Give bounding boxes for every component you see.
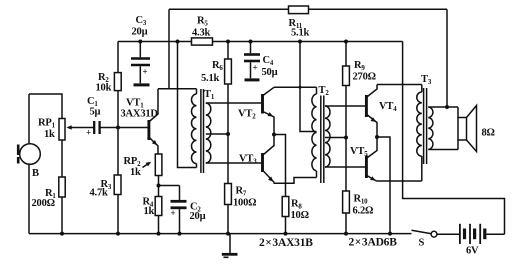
svg-text:VT2: VT2 xyxy=(238,109,256,121)
label R9 value xyxy=(353,72,376,83)
label R5 value xyxy=(192,28,211,39)
label R4 value xyxy=(144,206,155,217)
wiper arrow RP2 xyxy=(143,162,152,168)
label VT5 xyxy=(350,146,368,158)
junction VT2 VT3 emitters xyxy=(272,133,276,137)
wire base node to R3 xyxy=(117,128,119,176)
junction emitter ground xyxy=(388,232,392,236)
transformer T2 primary xyxy=(312,87,317,177)
svg-text:8Ω: 8Ω xyxy=(482,128,495,139)
svg-text:T1: T1 xyxy=(204,89,215,101)
junction R4 ground xyxy=(157,232,161,236)
label R2 xyxy=(98,72,109,84)
wire battery to feed xyxy=(486,233,504,235)
label output pair type xyxy=(259,237,313,249)
label R9 xyxy=(354,60,365,72)
wire ct to R7 xyxy=(227,134,229,184)
svg-text:R7: R7 xyxy=(236,186,247,198)
svg-text:6V: 6V xyxy=(466,246,479,257)
capacitor C4 xyxy=(244,42,260,80)
label R6 value xyxy=(201,73,220,84)
label R4 xyxy=(143,197,154,209)
junction R9 rail xyxy=(344,40,348,44)
wire VT4 collector xyxy=(377,84,422,86)
svg-text:5.1k: 5.1k xyxy=(291,28,310,39)
label B xyxy=(32,168,39,179)
label C3 value xyxy=(132,27,148,38)
junction T1 feed xyxy=(176,40,180,44)
resistor R4 xyxy=(155,197,162,216)
microphone B xyxy=(18,94,40,234)
svg-text:T3: T3 xyxy=(421,74,432,86)
label C2 xyxy=(190,202,201,214)
resistor R2 xyxy=(114,73,121,91)
svg-text:10Ω: 10Ω xyxy=(291,210,309,221)
svg-text:2 × 3AD6B: 2 × 3AD6B xyxy=(349,237,398,249)
svg-text:20µ: 20µ xyxy=(190,211,206,222)
svg-text:+: + xyxy=(86,128,91,138)
capacitor C3 xyxy=(131,42,150,85)
wiper arrow RP1 xyxy=(67,125,91,129)
label RP1 xyxy=(38,118,56,130)
svg-text:VT3: VT3 xyxy=(239,154,257,166)
svg-text:R6: R6 xyxy=(212,60,223,72)
wire R7 to ground xyxy=(227,205,229,234)
wire RP2 to emitter node xyxy=(158,176,160,186)
transistor VT2 xyxy=(263,87,275,134)
wire top feedback rail right xyxy=(309,8,448,10)
wire R10 to ground xyxy=(345,213,347,234)
resistor R1 xyxy=(59,177,65,197)
wire feedback drop xyxy=(168,9,170,89)
label R7 value xyxy=(233,198,256,209)
label VT3 xyxy=(239,154,257,166)
label R7 xyxy=(236,186,247,198)
wire T2 sec bottom to VT5 base xyxy=(325,166,366,168)
label T3 xyxy=(421,74,432,86)
label C4 plus xyxy=(253,63,258,73)
transformer T2 core xyxy=(321,96,324,184)
label C4 xyxy=(263,55,274,67)
wire emitters to ground xyxy=(377,137,390,234)
transistor VT5 xyxy=(366,137,377,181)
svg-text:+: + xyxy=(171,208,176,218)
svg-text:R5: R5 xyxy=(197,16,208,28)
transformer T1 core xyxy=(201,89,204,173)
label R11 value xyxy=(291,28,310,39)
wire rail to R9 xyxy=(345,42,347,67)
label RP2 value xyxy=(130,167,141,178)
junction base node xyxy=(116,126,120,130)
svg-text:270Ω: 270Ω xyxy=(353,72,376,83)
wire T2 center tap xyxy=(325,137,346,139)
junction T1 ct xyxy=(226,132,230,136)
label C2 plus xyxy=(171,208,176,218)
wire feedback takeoff xyxy=(446,9,448,107)
wire VT5 collector xyxy=(377,180,422,182)
svg-text:R10: R10 xyxy=(354,194,369,206)
label C1 value xyxy=(90,107,101,118)
label R10 value xyxy=(353,206,374,217)
label C4 value xyxy=(262,67,278,78)
label R3 value xyxy=(90,188,109,199)
label R5 xyxy=(197,16,208,28)
wire T1 sec top to VT2 base xyxy=(206,102,262,104)
junction T2 feed xyxy=(298,40,302,89)
wire R2 to base node xyxy=(117,91,119,128)
svg-text:1k: 1k xyxy=(44,129,55,140)
svg-text:50µ: 50µ xyxy=(262,67,278,78)
svg-text:4.3k: 4.3k xyxy=(192,28,211,39)
wire R6 to ct xyxy=(227,84,229,134)
svg-text:VT4: VT4 xyxy=(379,101,397,113)
svg-text:B: B xyxy=(32,168,39,179)
label R3 xyxy=(101,179,112,191)
label T2 xyxy=(319,85,330,97)
resistor R9 xyxy=(343,66,350,86)
svg-text:2 × 3AX31B: 2 × 3AX31B xyxy=(259,237,313,249)
junction R3 ground xyxy=(116,232,120,236)
svg-text:C3: C3 xyxy=(136,15,147,27)
label R8 value xyxy=(291,210,309,221)
resistor R5 xyxy=(192,38,213,45)
label speaker value xyxy=(482,128,495,139)
label power pair type xyxy=(349,237,398,249)
svg-text:S: S xyxy=(419,238,425,249)
label VT2 xyxy=(238,109,256,121)
junction C4 rail xyxy=(249,40,253,44)
resistor R3 xyxy=(114,175,121,195)
label R8 xyxy=(291,199,302,211)
svg-text:10k: 10k xyxy=(96,83,112,94)
wire ct to R10 xyxy=(345,138,347,192)
label C3 xyxy=(136,15,147,27)
label R10 xyxy=(354,194,369,206)
wire supply rail left xyxy=(118,41,192,43)
resistor R8 xyxy=(282,197,289,217)
transformer T3 primary xyxy=(417,85,422,182)
wire rail to T2 center tap xyxy=(300,42,317,132)
svg-text:3AX31D: 3AX31D xyxy=(121,109,159,120)
junction R7 ground xyxy=(226,232,230,236)
label VT4 xyxy=(379,101,397,113)
label R2 value xyxy=(96,83,112,94)
wire rail to R2 xyxy=(117,42,119,73)
label VT1 xyxy=(126,98,144,110)
label C2 value xyxy=(190,211,206,222)
label R1 xyxy=(45,188,56,200)
svg-text:1k: 1k xyxy=(144,206,155,217)
wire T1 sec bottom to VT3 base xyxy=(206,162,262,164)
wire rail to T1 primary bottom xyxy=(178,42,197,168)
wire left branch top xyxy=(29,94,62,119)
junction speaker top xyxy=(445,105,449,109)
transistor VT3 xyxy=(263,135,275,183)
junction T2 ct xyxy=(344,136,348,140)
svg-text:20µ: 20µ xyxy=(132,27,148,38)
transformer T2 secondary xyxy=(325,106,330,167)
wire battery feed xyxy=(403,42,505,235)
transformer T3 core xyxy=(424,88,427,164)
wire VT2 collector xyxy=(274,86,317,88)
battery 6V xyxy=(460,224,485,244)
potentiometer RP1 xyxy=(59,119,65,141)
resistor R7 xyxy=(225,184,232,205)
label VT1 type xyxy=(121,109,159,120)
label RP1 value xyxy=(44,129,55,140)
svg-text:200Ω: 200Ω xyxy=(32,198,55,209)
wire R9 to ct xyxy=(345,86,347,138)
svg-text:100Ω: 100Ω xyxy=(233,198,256,209)
label T1 xyxy=(204,89,215,101)
wire R8 to ground xyxy=(285,217,287,234)
svg-text:VT5: VT5 xyxy=(350,146,368,158)
wire T3 sec bottom xyxy=(428,149,458,151)
resistor R11 xyxy=(289,6,309,14)
transistor VT1 xyxy=(149,89,158,154)
ground symbol xyxy=(222,234,238,258)
junction VT4 VT5 emitters xyxy=(375,135,379,139)
svg-text:+: + xyxy=(143,67,148,77)
speaker 8 ohm xyxy=(458,106,477,152)
svg-text:+: + xyxy=(253,63,258,73)
transformer T1 primary xyxy=(191,89,196,168)
label C3 plus xyxy=(143,67,148,77)
svg-text:1k: 1k xyxy=(130,167,141,178)
switch S xyxy=(412,230,437,237)
resistor R6 xyxy=(225,59,232,84)
svg-text:4.7k: 4.7k xyxy=(90,188,109,199)
label R1 value xyxy=(32,198,55,209)
junction C3 rail xyxy=(138,40,142,44)
wire R4 to ground xyxy=(158,216,160,234)
junction emitter node xyxy=(157,184,161,188)
wire VT3 collector xyxy=(274,178,316,184)
wire R1 to ground rail xyxy=(61,197,63,234)
wire collector node xyxy=(158,88,197,90)
junction R10 ground xyxy=(344,232,348,236)
wire node to R4 xyxy=(158,186,160,197)
svg-text:RP1: RP1 xyxy=(38,118,56,130)
transformer T1 secondary xyxy=(206,103,211,163)
label S xyxy=(419,238,425,249)
svg-text:6.2Ω: 6.2Ω xyxy=(353,206,374,217)
junction C2 ground xyxy=(178,232,182,236)
label R11 xyxy=(289,18,303,30)
label battery 6V xyxy=(466,246,479,257)
capacitor C2 xyxy=(159,186,187,234)
svg-text:5µ: 5µ xyxy=(90,107,101,118)
wire switch to battery xyxy=(437,233,459,235)
junction R6 rail xyxy=(226,40,230,44)
wire emitters to R8 xyxy=(274,135,286,197)
wire T2 sec top to VT4 base xyxy=(325,105,366,107)
label R6 xyxy=(212,60,223,72)
wire bottom ground rail xyxy=(29,233,412,235)
potentiometer RP2 xyxy=(155,154,162,176)
wire RP1 to R1 xyxy=(61,140,63,177)
svg-text:C4: C4 xyxy=(263,55,274,67)
resistor R10 xyxy=(343,191,350,213)
svg-text:T2: T2 xyxy=(319,85,330,97)
svg-text:R9: R9 xyxy=(354,60,365,72)
junction R1 ground xyxy=(60,232,64,236)
junction R8 ground xyxy=(284,232,288,236)
label C1 xyxy=(87,96,98,108)
wire T3 sec top xyxy=(428,106,458,108)
label RP2 xyxy=(124,156,142,168)
transformer T3 secondary xyxy=(428,107,433,149)
wire R3 to ground xyxy=(117,195,119,234)
svg-text:R8: R8 xyxy=(291,199,302,211)
wire supply rail right xyxy=(213,41,403,43)
capacitor C1 xyxy=(90,121,149,134)
wire rail to R6 xyxy=(227,42,229,60)
transistor VT4 xyxy=(366,85,377,138)
svg-text:5.1k: 5.1k xyxy=(201,73,220,84)
wire top feedback rail xyxy=(169,8,289,10)
wire T1 center tap xyxy=(206,133,228,135)
label C1 plus xyxy=(86,128,91,138)
